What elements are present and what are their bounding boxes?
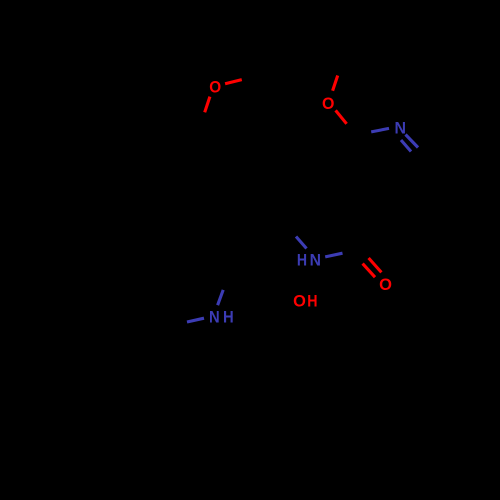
wire O1-CH3 half-bond	[225, 80, 242, 84]
wire indole NH up-right half-bond	[218, 290, 224, 305]
svg-text:H: H	[223, 308, 234, 326]
wire amide HN right half-bond	[325, 253, 342, 257]
svg-text:O: O	[209, 79, 221, 97]
wire C=O double bond inner line	[363, 264, 375, 278]
svg-text:O: O	[379, 276, 392, 294]
wire C-N pyridine half-bond	[371, 128, 389, 132]
wire N=C pyridine double bond main line	[406, 135, 419, 148]
wire amide HN up-left half-bond	[296, 237, 307, 249]
svg-text:N: N	[310, 252, 321, 270]
svg-text:O: O	[293, 293, 306, 311]
svg-text:H: H	[297, 252, 307, 270]
wire C=O double bond outer line	[369, 258, 382, 272]
wire O2-CH3 half-bond	[333, 76, 338, 91]
wire N=C pyridine double bond inner line	[401, 140, 411, 152]
wire O2-ring half-bond	[336, 110, 347, 123]
wire O1-ring half-bond	[205, 97, 210, 113]
svg-text:N: N	[209, 308, 220, 326]
svg-text:H: H	[307, 293, 317, 311]
svg-text:N: N	[395, 120, 407, 138]
svg-text:O: O	[322, 95, 335, 113]
wire indole NH left half-bond	[187, 318, 204, 322]
